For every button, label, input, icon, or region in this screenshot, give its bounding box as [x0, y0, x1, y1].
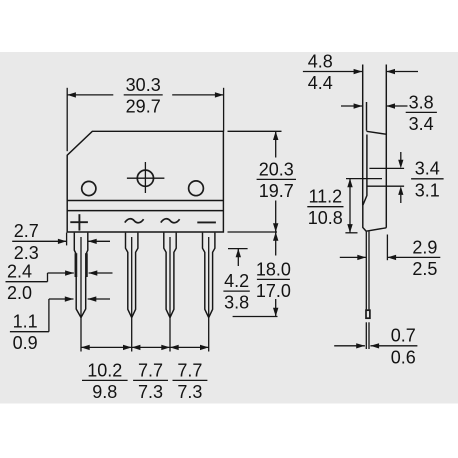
svg-text:10.2: 10.2 [87, 360, 122, 380]
pin 4 [203, 233, 215, 318]
svg-text:9.8: 9.8 [92, 382, 117, 402]
minus symbol [197, 221, 216, 223]
height dimension 20.3/19.7 [228, 131, 297, 232]
svg-text:7.7: 7.7 [138, 360, 163, 380]
mounting hole with crosshair [127, 162, 164, 193]
pin pitch dimensions 10.2 7.7 7.7 [81, 345, 209, 350]
thickness dimension 3.8/3.4 [341, 92, 437, 134]
svg-text:10.8: 10.8 [308, 208, 343, 228]
side view lead [366, 231, 370, 349]
pin 3 [164, 233, 176, 318]
front view body outline [67, 131, 223, 232]
svg-text:2.7: 2.7 [14, 221, 39, 241]
lead thickness dimension 0.7/0.6 [334, 326, 417, 368]
svg-text:3.8: 3.8 [224, 293, 249, 313]
pin 2 center line [131, 237, 133, 352]
svg-text:11.2: 11.2 [308, 187, 342, 207]
lead width dimension 2.4/2.0 [6, 262, 113, 304]
right hole [189, 181, 204, 196]
lead width dimension 2.7/2.3 [12, 221, 110, 263]
svg-text:7.7: 7.7 [177, 360, 202, 380]
svg-text:1.1: 1.1 [13, 312, 38, 332]
plus symbol [70, 214, 88, 230]
pin 3 center line [169, 237, 171, 352]
svg-text:7.3: 7.3 [177, 382, 202, 402]
svg-text:19.7: 19.7 [259, 181, 294, 201]
svg-text:0.6: 0.6 [391, 347, 416, 367]
hole depth dimension 3.4/3.1 [398, 152, 443, 203]
svg-text:2.0: 2.0 [7, 283, 32, 303]
svg-text:20.3: 20.3 [259, 159, 294, 179]
thickness dimension 4.8/4.4 [303, 51, 418, 93]
svg-text:4.2: 4.2 [224, 271, 249, 291]
pitch text 10.2/9.8 [82, 360, 128, 402]
pin 2 [126, 233, 138, 318]
svg-text:18.0: 18.0 [256, 259, 291, 279]
svg-text:29.7: 29.7 [126, 96, 161, 116]
pin 4 center line [208, 237, 210, 352]
svg-text:30.3: 30.3 [126, 75, 161, 95]
ledge dimension 2.9/2.5 [340, 235, 441, 279]
pin 1 center line [80, 237, 82, 352]
svg-text:3.8: 3.8 [409, 92, 434, 112]
ac tilde symbol 2 [161, 219, 180, 223]
lead thickness dimension 1.1/0.9 [10, 296, 110, 353]
svg-text:7.3: 7.3 [138, 382, 163, 402]
pitch text 7.7/7.3 first [133, 360, 168, 402]
terminal band line 1 [67, 200, 223, 202]
svg-text:3.4: 3.4 [409, 114, 434, 134]
svg-text:0.9: 0.9 [13, 333, 38, 353]
ac tilde symbol 1 [125, 219, 144, 223]
pin 1 (plus lead) [74, 233, 88, 318]
pitch text 7.7/7.3 second [173, 360, 208, 402]
terminal band line 2 [67, 210, 223, 212]
svg-text:4.4: 4.4 [308, 73, 333, 93]
side view hole lines [346, 168, 404, 186]
svg-text:2.9: 2.9 [412, 237, 437, 257]
lead length dimension 18.0/17.0 [233, 232, 291, 317]
svg-text:4.8: 4.8 [308, 51, 333, 71]
svg-text:2.3: 2.3 [14, 243, 39, 263]
shoulder dimension 4.2/3.8 [223, 249, 249, 313]
body height dimension 11.2/10.8 [307, 179, 357, 233]
svg-text:3.4: 3.4 [415, 159, 440, 179]
svg-text:17.0: 17.0 [256, 281, 291, 301]
side view body outline [363, 65, 387, 232]
svg-text:2.5: 2.5 [412, 259, 437, 279]
svg-text:2.4: 2.4 [7, 262, 32, 282]
left hole [82, 181, 96, 195]
svg-text:3.1: 3.1 [415, 180, 440, 200]
width dimension 30.3/29.7 [67, 75, 223, 151]
svg-text:0.7: 0.7 [391, 326, 416, 346]
